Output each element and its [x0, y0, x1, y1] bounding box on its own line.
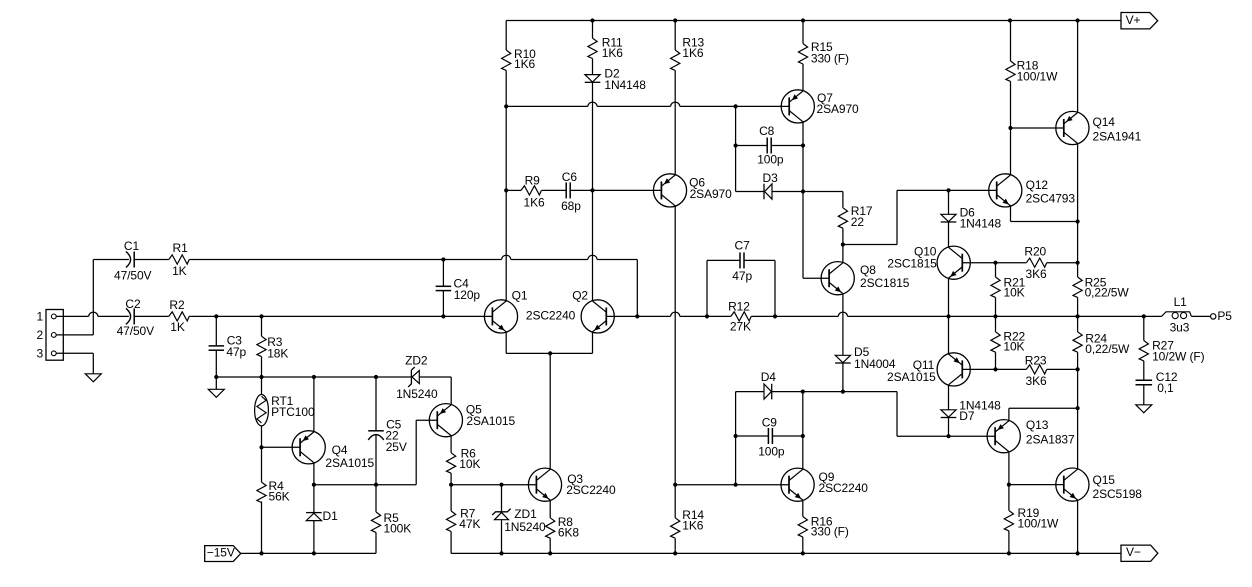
wire rail Q13-Q15	[1077, 408, 1079, 469]
svg-text:120p: 120p	[454, 288, 481, 302]
wire Q14 collector	[1077, 143, 1079, 221]
transistor Q6	[653, 174, 732, 207]
svg-text:2SA970: 2SA970	[817, 102, 860, 116]
wire Q2 base	[606, 315, 637, 317]
transistor Q12	[989, 174, 1076, 207]
svg-text:R9: R9	[525, 173, 541, 187]
svg-text:R1: R1	[173, 241, 189, 255]
node R3	[259, 314, 263, 318]
wire R17 to Q12 base	[843, 190, 997, 244]
svg-text:1: 1	[37, 310, 44, 324]
transistor Q4	[292, 431, 374, 471]
svg-text:68p: 68p	[561, 199, 581, 213]
node C9 left	[734, 434, 738, 438]
svg-text:Q4: Q4	[332, 443, 348, 457]
wire Q13 collector	[1008, 452, 1010, 485]
svg-text:100p: 100p	[757, 153, 784, 167]
diode D4	[761, 370, 777, 400]
wire Q12 emitter	[1011, 206, 1078, 222]
transistor Q8	[821, 262, 910, 295]
svg-text:2SA1015: 2SA1015	[887, 370, 936, 384]
svg-text:D1: D1	[323, 509, 339, 523]
svg-text:PTC100: PTC100	[271, 405, 315, 419]
resistor R21	[991, 263, 1026, 317]
node C8 branch top	[734, 104, 738, 108]
node R27 top	[1142, 314, 1146, 318]
wire Q9 collector	[802, 392, 804, 470]
node C5 top	[374, 375, 378, 379]
svg-text:2SC1815: 2SC1815	[887, 257, 937, 271]
wire Q3 base line	[451, 484, 536, 486]
node Q4 collector line	[312, 483, 316, 487]
capacitor C5	[368, 377, 407, 485]
wire mid line B	[775, 312, 1162, 316]
wire R9-C6	[541, 189, 566, 191]
node ZD1 rail	[499, 551, 503, 555]
svg-text:3u3: 3u3	[1170, 321, 1190, 335]
wire Q11 emitter	[948, 316, 950, 354]
svg-text:100/1W: 100/1W	[1017, 69, 1059, 83]
node C8 left	[734, 143, 738, 147]
transistor Q9	[781, 468, 868, 501]
wire Q10 base	[962, 262, 995, 264]
resistor R14	[671, 485, 705, 554]
svg-text:100K: 100K	[384, 522, 412, 536]
wire rail R23-Q13	[1077, 369, 1079, 408]
capacitor C2	[117, 297, 155, 338]
node R23 left	[993, 367, 997, 371]
node C9 right	[801, 434, 805, 438]
node R13 top	[673, 18, 677, 22]
resistor R1	[169, 241, 189, 278]
svg-text:1N4148: 1N4148	[960, 217, 1002, 231]
capacitor C12	[1136, 370, 1178, 405]
svg-text:22: 22	[851, 215, 865, 229]
resistor R20	[996, 245, 1078, 282]
node R21R22	[993, 314, 997, 318]
node Q9 base mid	[734, 483, 738, 487]
wire R2 to Q1 base	[189, 315, 492, 317]
wire Q14 emitter	[1077, 21, 1079, 113]
diode D7	[941, 399, 1001, 437]
svg-text:2SA1941: 2SA1941	[1093, 129, 1142, 143]
node R19 top	[1007, 483, 1011, 487]
svg-text:2SC2240: 2SC2240	[526, 308, 576, 322]
diode D3	[736, 171, 803, 200]
wire C2-R2	[134, 315, 169, 317]
svg-text:47K: 47K	[459, 517, 480, 531]
svg-text:Q8: Q8	[860, 263, 876, 277]
svg-text:V+: V+	[1126, 13, 1141, 27]
svg-text:1K: 1K	[172, 264, 187, 278]
resistor R18	[1006, 21, 1058, 84]
svg-text:1K6: 1K6	[514, 57, 535, 71]
svg-text:C1: C1	[124, 239, 140, 253]
wire Q12 collector	[1010, 81, 1012, 175]
resistor R6	[447, 447, 481, 485]
wire Q4-Q5 line	[314, 420, 437, 485]
svg-text:D4: D4	[761, 370, 777, 384]
svg-text:2SA1837: 2SA1837	[1026, 432, 1075, 446]
wire Q7 collector	[803, 122, 829, 278]
resistor R25	[1073, 222, 1129, 317]
node C8 right	[801, 143, 805, 147]
node Q4 emitter	[312, 375, 316, 379]
node Q12 emitter rail	[1076, 219, 1080, 223]
resistor R2	[169, 298, 189, 334]
svg-text:C2: C2	[125, 297, 141, 311]
svg-text:R12: R12	[728, 299, 750, 313]
node Q9 base R14	[673, 483, 677, 487]
svg-text:47p: 47p	[226, 345, 246, 359]
wire V+ rail	[506, 20, 1121, 22]
node C3	[214, 314, 218, 318]
svg-text:ZD1: ZD1	[514, 507, 537, 521]
flag V-	[1121, 545, 1158, 561]
wire riser to Q2 base	[636, 260, 638, 317]
svg-text:2SC5198: 2SC5198	[1093, 487, 1143, 501]
zener ZD2	[396, 354, 438, 401]
node C3 bottom	[214, 375, 218, 379]
flag -15V	[205, 546, 241, 562]
node D3 right	[801, 189, 805, 193]
svg-text:Q15: Q15	[1093, 473, 1116, 487]
svg-text:3K6: 3K6	[1026, 267, 1047, 281]
svg-text:V−: V−	[1126, 545, 1141, 559]
wire Q14 base	[1011, 127, 1064, 129]
svg-text:330 (F): 330 (F)	[811, 525, 849, 539]
wire Q15 emitter	[1077, 500, 1079, 553]
wire Q1 emitter	[505, 332, 507, 354]
wire pin2 riser	[56, 260, 129, 335]
node Q1 col R9	[504, 188, 508, 192]
wire Q2 emitter	[592, 332, 594, 354]
wire Q4 emitter	[313, 377, 315, 432]
svg-text:R23: R23	[1025, 353, 1047, 367]
resistor R15	[798, 21, 849, 92]
resistor R5	[371, 485, 411, 554]
wire C6 to Q6 base	[570, 189, 661, 191]
capacitor C8	[736, 124, 803, 167]
node R12 right	[773, 314, 777, 318]
wire D4 line left	[736, 391, 764, 393]
svg-text:Q14: Q14	[1093, 115, 1116, 129]
svg-text:Q1: Q1	[512, 289, 528, 303]
svg-text:Q13: Q13	[1026, 418, 1049, 432]
capacitor C9	[736, 416, 803, 459]
wire C8 branch	[735, 106, 737, 191]
capacitor C3	[209, 316, 247, 377]
svg-text:3K6: 3K6	[1026, 374, 1047, 388]
resistor R8	[546, 515, 580, 553]
svg-text:R20: R20	[1024, 245, 1046, 259]
node output Q10Q11	[946, 314, 950, 318]
wire Q8 emitter	[842, 294, 844, 356]
svg-text:1K: 1K	[170, 320, 185, 334]
svg-text:10K: 10K	[459, 457, 480, 471]
wire riser right	[897, 392, 995, 437]
svg-text:6K8: 6K8	[558, 526, 579, 540]
transistor Q15	[1056, 468, 1142, 501]
node R12 left	[705, 314, 709, 318]
svg-text:2: 2	[37, 328, 44, 342]
resistor R24	[1073, 316, 1130, 369]
resistor R22	[991, 316, 1026, 369]
svg-text:18K: 18K	[267, 347, 288, 361]
svg-text:100p: 100p	[758, 444, 785, 458]
transistor Q1	[484, 289, 527, 333]
capacitor C6	[561, 170, 581, 213]
transistor Q14	[1056, 111, 1142, 144]
node R14 rail	[673, 551, 677, 555]
wire bias line	[216, 376, 411, 378]
svg-text:10K: 10K	[1003, 340, 1024, 354]
wire Q4 base	[262, 446, 301, 448]
wire Q5 collector	[450, 436, 452, 453]
node D1 rail	[312, 551, 316, 555]
node Q2 col C6	[590, 188, 594, 192]
node Q14 top	[1076, 18, 1080, 22]
wire C1-R1	[134, 259, 169, 261]
svg-text:0,22/5W: 0,22/5W	[1085, 285, 1130, 299]
svg-text:3: 3	[37, 346, 44, 360]
node Q15 rail	[1076, 551, 1080, 555]
node Q2 base	[635, 314, 639, 318]
node R20 right	[1076, 261, 1080, 265]
ground C12	[1136, 405, 1152, 413]
svg-text:0,1: 0,1	[1157, 381, 1174, 395]
node ZD1 top	[499, 483, 503, 487]
inductor L1	[1162, 295, 1192, 334]
resistor R9	[521, 173, 545, 209]
node D7 bottom	[946, 434, 950, 438]
node R4 rail	[259, 551, 263, 555]
node R19 rail	[1007, 551, 1011, 555]
wire R1 to node	[189, 259, 501, 261]
svg-text:L1: L1	[1174, 295, 1188, 309]
diode D1	[306, 509, 338, 553]
svg-text:27K: 27K	[730, 319, 751, 333]
svg-text:10K: 10K	[1004, 285, 1025, 299]
node Q9 collector top	[801, 390, 805, 394]
node R23 right	[1076, 367, 1080, 371]
node C4 top	[441, 257, 445, 261]
svg-text:C7: C7	[735, 238, 751, 252]
resistor R17	[803, 192, 873, 245]
node emitter join	[548, 351, 552, 355]
node R11 top	[590, 18, 594, 22]
svg-text:1K6: 1K6	[602, 46, 623, 60]
svg-text:D7: D7	[959, 409, 975, 423]
zener ZD1	[492, 485, 546, 554]
svg-text:C6: C6	[562, 170, 578, 184]
svg-text:10/2W (F): 10/2W (F)	[1152, 350, 1205, 364]
svg-text:1K6: 1K6	[682, 46, 703, 60]
node R3 bottom	[259, 375, 263, 379]
svg-text:1K6: 1K6	[682, 519, 703, 533]
transistor Q13	[987, 418, 1075, 453]
ground connector	[85, 374, 101, 382]
node D6 top	[946, 188, 950, 192]
wire -15V rail	[241, 552, 376, 554]
node Q4 base	[259, 445, 263, 449]
svg-text:2SC4793: 2SC4793	[1026, 192, 1076, 206]
wire upper line hops	[502, 255, 638, 259]
wire pin1 to C2	[56, 312, 129, 316]
resistor R10	[502, 21, 537, 107]
thermistor RT1	[255, 377, 315, 447]
wire L1 to P5	[1191, 315, 1210, 317]
wire Q10 emitter	[948, 278, 950, 316]
svg-text:ZD2: ZD2	[405, 354, 428, 368]
node R6 bottom	[449, 483, 453, 487]
node R15 top	[801, 18, 805, 22]
wire R9 line	[506, 189, 521, 191]
svg-text:2SC2240: 2SC2240	[819, 481, 869, 495]
svg-text:−15V: −15V	[207, 546, 235, 560]
wire Q13 emitter	[1009, 408, 1078, 421]
svg-text:56K: 56K	[269, 490, 290, 504]
resistor R11	[588, 21, 623, 75]
resistor R19	[1004, 485, 1059, 554]
capacitor C1	[114, 239, 152, 282]
node R25R24	[1076, 314, 1080, 318]
svg-text:C8: C8	[759, 124, 775, 138]
svg-text:D3: D3	[763, 171, 779, 185]
svg-text:1N5240: 1N5240	[504, 520, 546, 534]
diode D6	[941, 190, 1002, 247]
wire D4 line right	[772, 391, 897, 393]
svg-text:47/50V: 47/50V	[114, 268, 152, 282]
wire Q9 emitter	[802, 500, 804, 516]
transistor Q2	[526, 289, 614, 333]
wire ZD2 to Q5 emitter	[419, 377, 451, 405]
svg-text:330 (F): 330 (F)	[811, 52, 849, 66]
transistor Q11	[887, 353, 970, 386]
svg-text:P5: P5	[1217, 309, 1232, 323]
wire Q3 emitter	[549, 500, 551, 518]
port P5	[1211, 309, 1233, 323]
node R8 rail	[548, 551, 552, 555]
resistor R3	[257, 316, 288, 377]
node R10 bottom	[504, 104, 508, 108]
wire C9 branch	[735, 392, 737, 485]
diode D2	[585, 66, 647, 91]
svg-text:2SA970: 2SA970	[690, 187, 733, 201]
svg-text:1K6: 1K6	[524, 196, 545, 210]
diode D5	[835, 345, 896, 392]
svg-text:R2: R2	[169, 298, 185, 312]
svg-text:2SC2240: 2SC2240	[566, 483, 616, 497]
svg-text:2SA1015: 2SA1015	[325, 456, 374, 470]
node R18 top	[1008, 18, 1012, 22]
svg-text:2SC1815: 2SC1815	[860, 276, 910, 290]
connector J1 pin header	[37, 310, 64, 361]
wire Q15 base line	[1009, 484, 1064, 486]
wire Q7 base line	[506, 102, 789, 106]
flag V+	[1121, 13, 1158, 29]
transistor Q5	[429, 403, 515, 437]
ground C3	[208, 377, 224, 397]
resistor R4	[257, 447, 290, 553]
wire Q4 collector	[313, 463, 315, 513]
capacitor C7	[707, 238, 775, 316]
svg-text:1N5240: 1N5240	[396, 387, 438, 401]
svg-text:47p: 47p	[732, 269, 752, 283]
node D5 bottom	[841, 390, 845, 394]
transistor Q10	[887, 245, 970, 280]
svg-text:25V: 25V	[386, 440, 407, 454]
resistor R27	[1139, 316, 1204, 380]
wire emitter join	[506, 352, 592, 354]
wire Q9 base line	[675, 484, 789, 486]
wire pin3 to ground	[56, 353, 93, 374]
resistor R13	[671, 21, 705, 176]
resistor R23	[996, 353, 1078, 388]
wire Q2 collector	[592, 82, 594, 301]
wire Q1 collector	[505, 106, 507, 301]
node Q13 emitter rail	[1076, 406, 1080, 410]
transistor Q7	[781, 90, 859, 123]
wire Q11 base	[962, 368, 995, 370]
svg-text:2SA1015: 2SA1015	[466, 414, 515, 428]
wire Q3 collector	[549, 353, 551, 469]
svg-text:Q2: Q2	[572, 289, 588, 303]
svg-text:47/50V: 47/50V	[117, 324, 155, 338]
node Q14 base node	[1008, 126, 1012, 130]
resistor R7	[447, 485, 481, 554]
svg-text:0,22/5W: 0,22/5W	[1085, 342, 1130, 356]
wire Q8 collector	[842, 245, 844, 263]
node R16 rail	[801, 551, 805, 555]
node R20 left	[993, 261, 997, 265]
svg-text:Q12: Q12	[1026, 178, 1049, 192]
svg-text:C9: C9	[762, 416, 778, 430]
node R17 bottom	[841, 242, 845, 246]
capacitor C4	[436, 260, 481, 317]
resistor R12	[707, 299, 775, 333]
wire Q6 collector	[674, 206, 676, 485]
wire Q11 collector	[948, 385, 950, 410]
svg-text:100/1W: 100/1W	[1018, 517, 1060, 531]
svg-text:1N4148: 1N4148	[604, 78, 646, 92]
wire V- rail	[451, 552, 1121, 554]
transistor Q3	[528, 468, 616, 501]
resistor R16	[798, 515, 849, 554]
wire mid line A	[637, 312, 707, 316]
node C5 bottom	[374, 483, 378, 487]
node C4 bottom	[441, 314, 445, 318]
